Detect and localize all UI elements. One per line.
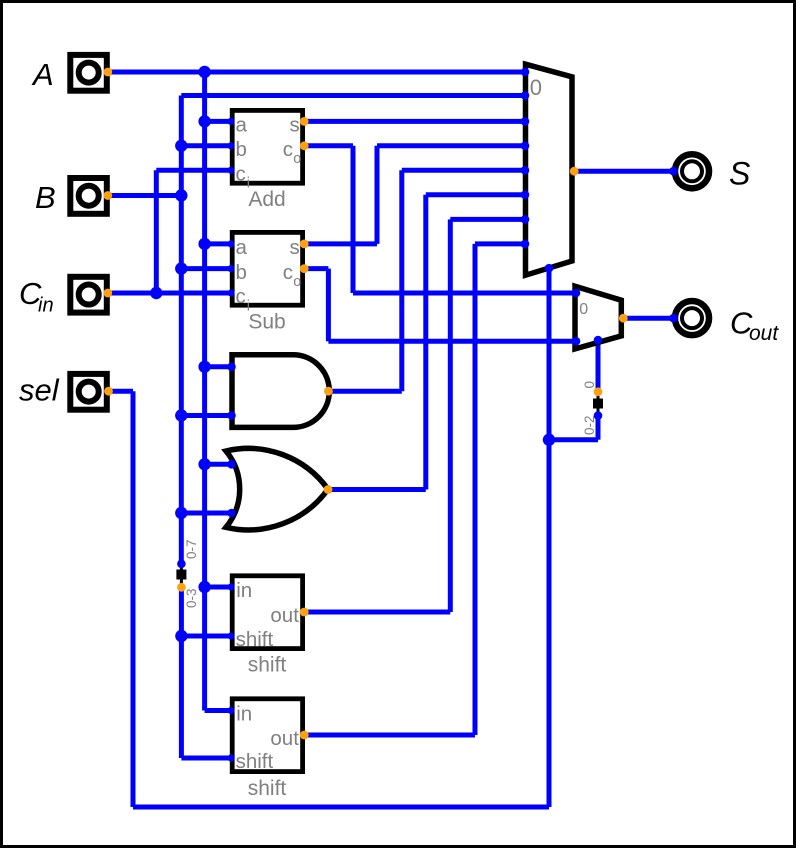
wire B vertical bus — [179, 96, 184, 564]
wire Add s to mux in2 — [304, 119, 525, 124]
svg-text:shift: shift — [236, 628, 274, 651]
shift2 box — [232, 699, 302, 772]
svg-text:in: in — [236, 579, 252, 602]
wire shift2 out to mux in7 — [475, 241, 526, 246]
splitter labels rotated — [184, 381, 597, 608]
input pin B — [70, 178, 107, 214]
orange connection dots — [103, 68, 627, 740]
svg-text:0: 0 — [582, 381, 597, 389]
svg-text:a: a — [236, 236, 248, 259]
svg-text:s: s — [290, 114, 300, 137]
wire stub B to Add b — [181, 143, 231, 148]
wire B horizontal from pin — [108, 193, 182, 198]
black pin labels — [19, 57, 779, 408]
svg-text:b: b — [236, 138, 247, 161]
wire Sub s right — [304, 241, 377, 246]
wire sel vertical left — [131, 391, 136, 807]
svg-text:c: c — [283, 261, 293, 284]
wire Add co to small mux in0 — [353, 291, 575, 296]
wire small mux out to Cout pin — [623, 316, 673, 321]
svg-text:0: 0 — [579, 301, 588, 318]
wire mux out to S pin — [574, 169, 673, 174]
wire Blow corner to shift2 shift — [181, 756, 231, 761]
wire stub Blow to shift1 shift — [181, 634, 231, 639]
wire stub A to shift1 in — [205, 585, 231, 590]
input pin sel — [70, 374, 107, 410]
wire sel bit0 to small mux select — [596, 340, 601, 392]
svg-text:c: c — [236, 285, 246, 308]
input pin A — [70, 55, 107, 91]
svg-text:0-3: 0-3 — [184, 588, 199, 608]
wire stub B to OR in2 — [181, 511, 231, 516]
wire stub A to Add a — [205, 119, 231, 124]
mux 0 labels — [530, 75, 589, 318]
wire stub B to Sub b — [181, 266, 231, 271]
wire Cin corner to Add ci — [156, 168, 231, 173]
wire sel from pin — [109, 389, 134, 394]
wire B low bits below splitter — [179, 587, 184, 758]
wire stub A to Sub a — [205, 241, 231, 246]
adder U1 Add box — [232, 110, 302, 183]
wire A vertical bus — [202, 72, 207, 711]
svg-text:o: o — [293, 151, 301, 167]
svg-text:o: o — [293, 274, 301, 290]
svg-text:Sub: Sub — [248, 311, 285, 334]
wire sel vertical up to mux select — [547, 268, 552, 807]
wire B top to mux in1 — [181, 93, 525, 98]
svg-text:shift: shift — [248, 777, 287, 800]
wire stub A to AND in1 — [205, 364, 232, 369]
wire AND out vertical up — [399, 170, 404, 391]
wire shift2 out vertical up — [473, 244, 478, 735]
wire sel bottom run — [133, 805, 549, 810]
svg-text:out: out — [270, 727, 299, 750]
wire Sub co right — [304, 266, 328, 271]
svg-text:0-7: 0-7 — [184, 539, 199, 559]
multiplexer MUX1 8to1 — [526, 64, 573, 275]
wire Add co right — [304, 143, 353, 148]
svg-text:s: s — [290, 236, 300, 259]
output pin S — [675, 154, 709, 188]
wire AND out right — [328, 389, 401, 394]
svg-text:out: out — [270, 604, 299, 627]
gray component names — [248, 188, 287, 800]
wire Add co vertical down — [351, 146, 356, 293]
wire A corner to shift2 in — [205, 708, 231, 713]
svg-text:A: A — [31, 57, 54, 92]
wire shift2 out right — [304, 733, 475, 738]
subtractor U2 Sub box — [232, 232, 302, 305]
AND gate — [232, 355, 329, 428]
svg-text:a: a — [236, 114, 248, 137]
wire OR out to mux in5 — [426, 192, 526, 197]
svg-text:shift: shift — [248, 654, 287, 677]
wire OR out right — [328, 487, 426, 492]
wire sel branch right — [549, 437, 598, 442]
wire stub B to AND in2 — [181, 413, 231, 418]
OR gate — [226, 448, 328, 530]
svg-text:in: in — [38, 295, 54, 317]
wire OR out vertical up — [423, 195, 428, 490]
svg-text:0-2: 0-2 — [582, 415, 597, 435]
svg-text:in: in — [236, 703, 252, 726]
multiplexer MUX2 2to1 — [575, 286, 621, 349]
wire sel branch up to splitter2 — [596, 416, 601, 440]
svg-text:B: B — [35, 180, 56, 215]
splitter SP1 0-7 to 0-3 — [176, 566, 186, 585]
output pin Cout — [675, 301, 709, 335]
gray component port labels — [236, 114, 302, 773]
input pin Cin — [70, 277, 107, 313]
svg-text:c: c — [236, 163, 246, 186]
svg-text:out: out — [749, 322, 779, 345]
wire Sub s vertical up — [375, 146, 380, 244]
wire Sub co vertical down — [326, 269, 331, 342]
wire A horizontal to mux in0 — [108, 70, 526, 75]
svg-text:b: b — [236, 261, 247, 284]
wire end dots — [177, 68, 678, 762]
wire stub A to OR in1 — [205, 462, 232, 467]
splitter SP2 0-2 to 0 — [593, 394, 603, 413]
wire shift1 out vertical up — [448, 219, 453, 612]
svg-text:c: c — [283, 138, 293, 161]
svg-text:shift: shift — [236, 750, 274, 773]
wire shift1 out to mux in6 — [450, 217, 525, 222]
wire Sub s to mux in3 — [377, 143, 526, 148]
wire Sub co to small mux in1 — [328, 339, 575, 344]
svg-text:0: 0 — [530, 75, 542, 100]
shift1 box — [232, 576, 302, 649]
svg-text:Add: Add — [248, 188, 285, 211]
svg-text:sel: sel — [19, 373, 60, 408]
wire AND out to mux in4 — [402, 168, 526, 173]
svg-text:S: S — [729, 156, 750, 192]
wire shift1 out right — [304, 610, 450, 615]
wire Cin horizontal to Sub ci — [108, 291, 231, 296]
wire Cin vertical — [154, 170, 159, 293]
